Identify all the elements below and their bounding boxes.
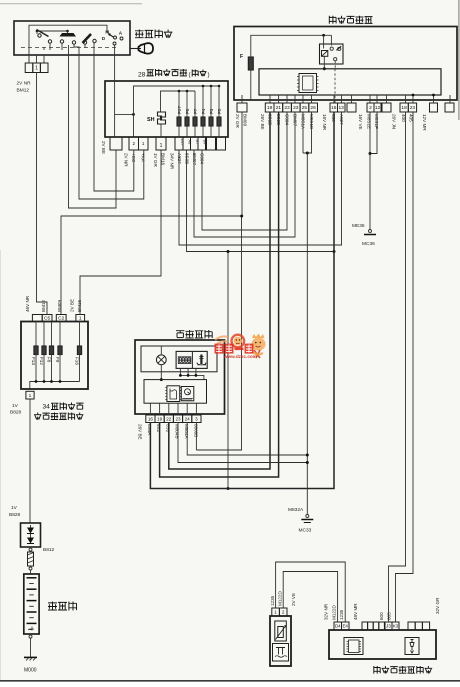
fuse F16	[79, 322, 81, 347]
cluster fuel gauge icon	[197, 363, 206, 365]
svg-text:M122D: M122D	[278, 591, 283, 606]
ECU connector icon	[344, 638, 363, 655]
svg-text:F13: F13	[31, 357, 36, 365]
engine fuse box top pins C5 C2 1	[32, 315, 42, 322]
svg-text:K3: K3	[393, 624, 399, 629]
svg-text:BM16: BM16	[77, 300, 82, 312]
wire C804 cabin to BSI	[202, 112, 287, 230]
wire 400 BSI to ECU J3	[389, 112, 406, 622]
svg-text:26: 26	[310, 105, 316, 111]
svg-text:26V BE: 26V BE	[260, 114, 265, 130]
cabin box pins +CC +AA	[129, 137, 139, 150]
cluster 8888 display	[178, 357, 191, 364]
BSI blank pin far right	[445, 103, 454, 112]
svg-text:BM12: BM12	[41, 300, 46, 312]
svg-text:B812: B812	[43, 547, 55, 553]
svg-text:1: 1	[29, 393, 32, 399]
svg-text:22: 22	[166, 416, 172, 421]
svg-text:M804B: M804B	[175, 424, 180, 439]
scan border left	[0, 250, 2, 682]
svg-text:BM07: BM07	[192, 153, 197, 165]
svg-text:F8: F8	[47, 357, 52, 363]
cabin box pin A8	[183, 137, 191, 150]
engine ECU box	[329, 630, 436, 659]
svg-text:26V BE: 26V BE	[138, 424, 143, 440]
cluster pin connector 16 19 22 23 24 3	[146, 415, 155, 423]
svg-text:2: 2	[133, 141, 136, 146]
BSI pin connector 2V GR (blank)	[237, 103, 247, 112]
cabin fuse box internal bus 1	[134, 86, 220, 137]
svg-text:F: F	[240, 54, 243, 60]
fuse F9	[59, 322, 61, 347]
ignition switch internal bus wire	[29, 25, 107, 62]
svg-text:MC36: MC36	[362, 241, 375, 247]
BSI pin connector 19 21 22 23 25 26	[265, 103, 274, 112]
wire from engine fuse box pin1 to diode module	[29, 399, 31, 523]
cabin fuse box internal bus 2	[160, 124, 162, 137]
BSI fuse feed wire	[251, 35, 332, 57]
svg-text:18: 18	[401, 105, 407, 111]
svg-text:M000: M000	[24, 668, 37, 674]
svg-text:16: 16	[331, 105, 337, 111]
svg-text:MC33: MC33	[299, 528, 312, 534]
ECU pin connector J3 K3	[385, 622, 392, 630]
svg-text:2V GR: 2V GR	[235, 114, 240, 128]
BSI relay contact dashed wire to pin 16	[334, 61, 336, 69]
sensor level icon	[273, 644, 289, 662]
svg-text:): )	[208, 72, 210, 79]
svg-text:3: 3	[195, 416, 198, 421]
scan border right	[458, 0, 460, 120]
svg-text:32V GR: 32V GR	[435, 597, 440, 614]
smart control box title 智能控制盒	[329, 16, 336, 24]
BSI relay	[320, 44, 344, 64]
ignition switch S1 box	[14, 21, 130, 55]
wire 1235 sensor to ECU E4	[276, 562, 346, 622]
svg-text:D: D	[102, 36, 105, 41]
cabin box blank pins right	[207, 137, 216, 150]
watermark text 维库一下 (red)	[215, 344, 254, 354]
svg-text:www.dzsc.com: www.dzsc.com	[223, 354, 257, 359]
svg-text:ME36: ME36	[352, 223, 365, 229]
wire ignition sw2b to cabin +AA	[79, 55, 144, 199]
coolant temp sensor module	[270, 616, 291, 666]
svg-text:26V JN: 26V JN	[392, 114, 397, 129]
svg-text:1V: 1V	[12, 403, 19, 409]
ignition key symbol	[131, 48, 142, 50]
smart control box BSI	[234, 27, 457, 101]
svg-text:34: 34	[43, 404, 51, 411]
wire 8S0B riser to cluster trunk	[227, 252, 229, 489]
ignition switch contact 1	[38, 34, 41, 37]
scan border top	[0, 3, 142, 5]
BSI strip pin stubs	[241, 95, 243, 103]
svg-text:16V NR: 16V NR	[322, 114, 327, 131]
svg-text:1V: 1V	[11, 505, 18, 511]
svg-text:F12: F12	[39, 357, 44, 365]
ground M000	[24, 656, 37, 658]
svg-text:13: 13	[339, 105, 345, 111]
BSI strip connector icon	[299, 74, 317, 93]
ignition switch connector (1)	[28, 55, 30, 63]
wire 8S2B BSI to cluster pin19	[160, 112, 279, 477]
svg-text:M122D: M122D	[332, 605, 337, 620]
cluster display link wires	[179, 368, 181, 375]
wire BM12 ignition to C5	[37, 73, 48, 315]
svg-text:F16: F16	[75, 357, 80, 365]
svg-text:23: 23	[175, 416, 181, 421]
svg-text:F27: F27	[177, 106, 182, 114]
svg-text:2V BE: 2V BE	[101, 141, 106, 154]
svg-text:32V NR: 32V NR	[324, 603, 329, 620]
battery label 蓄电池	[48, 602, 57, 611]
svg-text:1: 1	[160, 143, 163, 149]
wire 830/8S0 BSI pin16 trunk to cluster pin16	[150, 112, 334, 489]
svg-text:8S1: 8S1	[166, 424, 171, 433]
BSI blank pin	[430, 103, 438, 112]
svg-text:BM12: BM12	[17, 88, 30, 94]
fuse F13	[35, 322, 37, 347]
wire M8S1A/M8S1B merge	[302, 112, 304, 153]
svg-text:19: 19	[157, 416, 163, 421]
svg-text:1: 1	[35, 66, 38, 72]
battery 蓄电池	[24, 574, 39, 634]
cabin box pin 1 (BM16)	[156, 137, 166, 150]
svg-text:F7: F7	[193, 108, 198, 114]
svg-text:2V NR: 2V NR	[124, 153, 129, 167]
svg-text:28: 28	[138, 71, 146, 78]
svg-text:12V MR: 12V MR	[422, 114, 427, 131]
wire A827 cabin to BSI pin13	[179, 112, 342, 245]
svg-text:M8S1E: M8S1E	[367, 114, 372, 129]
fuse F12	[43, 322, 45, 347]
svg-text:22: 22	[284, 105, 290, 111]
svg-text:F5: F5	[217, 108, 222, 114]
svg-text:SH: SH	[147, 117, 155, 123]
wire BM16 cabin pin1 to engine fuse box	[80, 150, 161, 315]
cluster inner bottom box	[144, 380, 207, 404]
scan border bottom	[0, 680, 460, 682]
cluster pin stubs	[149, 403, 151, 415]
cluster display module box	[176, 351, 207, 368]
svg-text:12: 12	[375, 105, 381, 111]
battery fuse link	[30, 547, 32, 548]
wire M8S1E/M8S1F merge	[369, 112, 371, 154]
svg-text:1235: 1235	[270, 595, 275, 606]
wire 8S0B cabin branch	[187, 150, 335, 252]
svg-text:600: 600	[379, 612, 384, 620]
svg-text:F9: F9	[55, 357, 60, 363]
svg-text:21: 21	[276, 105, 282, 111]
wire BM07 cabin to BSI	[194, 112, 295, 237]
svg-text:M8S1F: M8S1F	[374, 114, 379, 129]
ECU blank pins group 2	[408, 622, 415, 630]
cluster warning lamp	[156, 355, 166, 365]
svg-text:M804A: M804A	[184, 424, 189, 439]
BSI internal connector strip	[259, 69, 441, 95]
svg-text:46V NR: 46V NR	[25, 295, 30, 312]
svg-text:2: 2	[282, 610, 285, 616]
cabin box pin B4	[198, 137, 206, 150]
watermark mascot swoosh	[215, 336, 228, 344]
sensor element (thermistor)	[275, 621, 287, 641]
svg-text:24: 24	[185, 416, 191, 421]
coolant sensor pin connector 1 2	[272, 608, 280, 616]
svg-text:48V MR: 48V MR	[353, 603, 358, 620]
svg-text:F4: F4	[201, 108, 206, 114]
svg-text:E4: E4	[343, 624, 349, 629]
svg-text:8S0A: 8S0A	[147, 424, 152, 436]
wire 405 BSI to ECU K3	[396, 112, 414, 622]
ignition switch contact 2 (thick bar)	[60, 33, 77, 37]
svg-text:F3: F3	[209, 108, 214, 114]
ignition switch label 点火开关	[135, 30, 144, 39]
svg-text:A827: A827	[177, 153, 182, 164]
diode module B812	[21, 523, 41, 547]
svg-text:+AA: +AA	[141, 153, 146, 163]
ignition switch contact 3 (diagonal bar)	[83, 34, 92, 43]
svg-text:1235: 1235	[339, 609, 344, 620]
wire cluster pin23 to ground trunk	[178, 423, 307, 463]
BSI relay coil to strip junction	[323, 56, 325, 69]
svg-text:B828: B828	[9, 512, 21, 518]
svg-text:25: 25	[302, 105, 308, 111]
wire cluster pin24 to ground trunk	[187, 423, 307, 456]
wire 8S1B BSI to cluster pin22	[169, 112, 270, 469]
svg-text:B828: B828	[10, 410, 22, 416]
BSI blank pin	[382, 103, 391, 112]
BSI pin connector 18 23	[400, 103, 408, 112]
wire BM09 riser from cluster pin3	[196, 216, 241, 450]
cluster gauge icon	[181, 387, 194, 401]
ignition switch mechanical linkage (dashed)	[21, 47, 117, 49]
wire ignition sw2a to cabin 2V BE pin	[69, 55, 117, 208]
svg-text:1: 1	[274, 610, 277, 616]
svg-text:2V BE: 2V BE	[70, 299, 75, 312]
svg-text:2V NR: 2V NR	[17, 81, 32, 87]
cluster inner top box	[141, 346, 217, 372]
battery to ground wire	[30, 634, 32, 635]
svg-text:J3: J3	[386, 624, 391, 629]
BSI blank pin	[347, 103, 356, 112]
svg-text:M832A: M832A	[288, 507, 304, 513]
wire M122D sensor to ECU D4	[283, 572, 337, 623]
svg-text:2: 2	[369, 105, 372, 111]
instrument cluster title 组合仪表	[176, 331, 184, 338]
watermark mascot 2 (lion)	[252, 334, 265, 339]
svg-text:23: 23	[410, 105, 416, 111]
svg-text:2V VE: 2V VE	[291, 593, 296, 606]
svg-text:8S0B: 8S0B	[185, 153, 190, 164]
svg-text:D4: D4	[335, 624, 341, 629]
wire BM09 BSI to C2 trunk	[61, 216, 242, 315]
BSI pin connector 16 13	[330, 103, 338, 112]
watermark mascot 1 (ring face)	[232, 335, 245, 348]
wire ignition sw3 to cabin +CC	[94, 55, 134, 191]
svg-text:16V VE: 16V VE	[358, 114, 363, 130]
svg-text:BM09: BM09	[243, 114, 248, 126]
svg-text:1V GR: 1V GR	[153, 153, 158, 167]
ground ME36/MC36	[369, 230, 372, 233]
ground M832A/MC33	[306, 515, 309, 518]
wire M8S1E to ground MC36	[369, 154, 371, 230]
engine fuse box bottom pin 1	[26, 391, 34, 399]
wire M8S1 to ground MC33	[306, 153, 308, 515]
ECU injector icon	[405, 638, 419, 655]
cabin fuse box F2	[105, 81, 228, 137]
fuse F8	[51, 322, 53, 347]
svg-text:605: 605	[387, 612, 392, 620]
ECU title 发动机电控单元	[374, 666, 381, 674]
svg-text:F8: F8	[185, 108, 190, 114]
svg-text:1: 1	[142, 141, 145, 146]
svg-text:23: 23	[293, 105, 299, 111]
BSI pin connector 2 12	[367, 103, 374, 112]
ECU blank pins group 1	[362, 622, 368, 630]
svg-text:16: 16	[148, 416, 154, 421]
cluster connector icon	[167, 386, 180, 402]
svg-text:19: 19	[267, 105, 273, 111]
engine fuse box bottom bus	[30, 382, 80, 390]
cabin box pin A7	[191, 137, 199, 150]
svg-text:34V NR: 34V NR	[170, 153, 175, 170]
engine fuse box (34-way)	[21, 322, 88, 390]
instrument cluster box	[135, 340, 225, 414]
ECU pin connector D4 E4	[334, 622, 342, 630]
cabin fuse box internal wire from ignition sw4	[114, 55, 116, 137]
